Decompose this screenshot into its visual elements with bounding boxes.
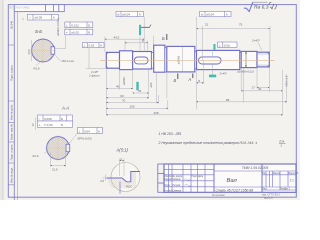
svg-text:⟂: ⟂ — [219, 43, 221, 47]
dia dim line inside s7 — [245, 51, 247, 67]
svg-text:6Р9(-0,03): 6Р9(-0,03) — [78, 137, 92, 141]
feature frame F7 — [38, 115, 73, 127]
stamp horizontals — [164, 170, 296, 187]
svg-text:Б: Б — [162, 36, 165, 41]
svg-text:0,5: 0,5 — [101, 179, 105, 183]
svg-text:А: А — [98, 129, 100, 133]
stamp left strip — [158, 164, 164, 192]
top-left corner stamp — [14, 5, 64, 12]
shaft section s7 — [241, 51, 257, 67]
svg-text:Б: Б — [174, 78, 177, 83]
dim 70 left / 85 right — [106, 102, 158, 104]
svg-text:Взам. инв.№: Взам. инв.№ — [10, 124, 14, 140]
svg-text:Подп. и дата: Подп. и дата — [10, 65, 14, 81]
dim 40 right — [241, 90, 282, 92]
svg-text:Масштаб: Масштаб — [288, 173, 299, 175]
svg-text:Масса: Масса — [273, 173, 281, 175]
stamp verticals left table — [169, 164, 206, 192]
leader left of А-А — [44, 151, 48, 154]
left strip dividers — [8, 45, 14, 185]
keyway slot s3 — [134, 57, 148, 64]
cut line x182 — [182, 47, 184, 72]
svg-text:0,008: 0,008 — [44, 117, 52, 121]
feature frame F3 top-left — [28, 14, 59, 20]
groove hatch — [107, 172, 137, 189]
svg-text:70: 70 — [122, 99, 126, 103]
svg-text:⌀22k6(-0,015): ⌀22k6(-0,015) — [56, 18, 60, 36]
svg-text:14,5: 14,5 — [27, 49, 31, 55]
teal datum mark T1 — [139, 25, 141, 35]
stamp outer — [164, 164, 296, 192]
svg-text:Струков: Струков — [173, 191, 182, 193]
svg-text:Дата: Дата — [198, 176, 204, 178]
teal mark T2 — [136, 82, 138, 91]
extension lines below shaft — [106, 50, 286, 115]
relief groove g4 — [240, 52, 241, 67]
svg-text:Б: Б — [88, 31, 90, 35]
section circle А-А — [45, 135, 71, 161]
svg-text:Иванов: Иванов — [173, 179, 182, 181]
dim 17 right — [257, 87, 269, 89]
shaft section s2 — [120, 51, 133, 70]
svg-text:◎: ◎ — [117, 13, 120, 17]
small dim mid — [133, 92, 149, 94]
svg-text:32: 32 — [138, 89, 142, 93]
dim 40 left — [106, 88, 132, 90]
svg-text:0,02: 0,02 — [89, 44, 95, 48]
teal mark T3 — [213, 44, 215, 50]
svg-text:Пров.: Пров. — [164, 185, 170, 187]
svg-text:Копировал: Копировал — [212, 193, 225, 197]
small bracket left of F7 — [35, 118, 37, 131]
svg-text:Петров: Петров — [173, 185, 181, 187]
section circle Б-Б — [31, 38, 56, 63]
F10 callout — [82, 43, 104, 48]
svg-text:40: 40 — [258, 87, 262, 91]
svg-text:ТММ 1.09.01.005: ТММ 1.09.01.005 — [8, 6, 30, 10]
svg-text:17: 17 — [252, 86, 256, 90]
shaft collar s4 — [154, 45, 165, 72]
Б-Б bottom dim — [36, 60, 43, 66]
svg-text:R1,6: R1,6 — [34, 67, 40, 71]
svg-text:○: ○ — [39, 117, 41, 121]
svg-text:Инв.№ дубл.: Инв.№ дубл. — [10, 104, 14, 120]
detail dims — [102, 159, 124, 181]
svg-text:⌀16k6(+0,01): ⌀16k6(+0,01) — [237, 70, 254, 74]
shaft section s5 — [167, 46, 195, 72]
svg-text:40: 40 — [116, 85, 120, 89]
svg-text:Б-Б: Б-Б — [35, 29, 42, 34]
svg-text:⌀18k6: ⌀18k6 — [122, 77, 126, 85]
svg-text:⟂: ⟂ — [83, 44, 85, 48]
sheet background — [0, 0, 300, 200]
svg-text:А: А — [188, 77, 192, 82]
svg-text:№ докум.: № докум. — [173, 175, 183, 178]
thread line s8 — [257, 53, 269, 55]
svg-text:⟂: ⟂ — [39, 123, 41, 127]
shaft section s8 — [257, 52, 269, 67]
svg-text:2×45°: 2×45° — [219, 72, 228, 76]
svg-text:ТММ 1.09.01.005: ТММ 1.09.01.005 — [242, 166, 269, 170]
svg-text:⌀0,02: ⌀0,02 — [71, 31, 79, 35]
svg-text:60: 60 — [120, 94, 124, 98]
svg-text:0,5⌀: 0,5⌀ — [224, 43, 230, 47]
svg-text:2 Неуказанные предельные откло: 2 Неуказанные предельные отклонения разм… — [158, 141, 258, 145]
svg-text:А: А — [53, 16, 55, 20]
keyway notch А-А — [66, 144, 70, 151]
svg-text:1 НВ 263...285: 1 НВ 263...285 — [159, 132, 182, 136]
extension line x153 — [152, 36, 154, 46]
dim 208 total — [106, 114, 282, 116]
stamp right section — [262, 171, 296, 190]
svg-text:⌀0,05: ⌀0,05 — [35, 16, 43, 20]
shaft section s1 — [106, 52, 119, 68]
svg-text:21,9: 21,9 — [52, 168, 58, 172]
dim 106 — [106, 107, 168, 109]
svg-text:А: А — [139, 13, 141, 17]
centerline — [101, 59, 275, 61]
svg-text:⌀0,04: ⌀0,04 — [206, 13, 214, 17]
relief groove g1 — [152, 53, 154, 69]
detail vertical drop — [119, 182, 121, 194]
shaft section s3 — [133, 52, 152, 70]
svg-text:85: 85 — [226, 98, 230, 102]
svg-text:Лит.: Лит. — [262, 173, 267, 175]
Б-Б left vertical dim — [31, 40, 33, 61]
feature frame F4 — [65, 22, 93, 28]
svg-text:38.340: 38.340 — [10, 20, 14, 29]
centerline overlay — [101, 59, 275, 61]
svg-text:⟂: ⟂ — [79, 129, 81, 133]
sheet left edge shadow — [0, 0, 3, 200]
shaft section s6 — [197, 50, 240, 69]
svg-text:А: А — [226, 13, 228, 17]
dim below А-А — [51, 153, 66, 168]
svg-text:Вал: Вал — [227, 178, 238, 184]
detail circle — [111, 163, 140, 192]
feature frame F2 above shaft right — [200, 11, 232, 16]
svg-text:R0,5: R0,5 — [126, 185, 132, 189]
top dim 44.5 — [105, 37, 144, 53]
svg-text:1:1: 1:1 — [290, 179, 295, 183]
svg-text:Б: Б — [88, 23, 90, 27]
dim 60 — [106, 97, 148, 99]
svg-text:Б: Б — [61, 117, 63, 121]
left chamfer note with shelf — [86, 67, 105, 69]
frame column line 2 — [17, 12, 19, 200]
svg-text:◎: ◎ — [201, 13, 204, 17]
teal mark T4 — [209, 75, 216, 78]
dim 8 right — [197, 82, 204, 84]
svg-text:А: А — [100, 44, 102, 48]
feature frame F9 — [78, 128, 103, 134]
leader line from F4 down to circle — [65, 22, 67, 48]
svg-text:Подп. и дата: Подп. и дата — [10, 144, 14, 160]
signatures in stamp — [174, 179, 192, 191]
leader from Б-Б notch — [54, 54, 61, 61]
svg-text:2×45°: 2×45° — [251, 39, 261, 43]
left strip rotated labels — [10, 20, 14, 183]
svg-text:Листов 1: Листов 1 — [280, 189, 290, 191]
svg-text:75: 75 — [239, 23, 243, 27]
border frame — [8, 5, 296, 198]
svg-text:А-А: А-А — [61, 106, 69, 111]
svg-text:21: 21 — [205, 23, 209, 27]
svg-text:⟂: ⟂ — [22, 17, 24, 21]
svg-text:Подп.: Подп. — [191, 176, 197, 178]
stamp left table texts — [164, 175, 204, 192]
svg-text:0,012: 0,012 — [71, 23, 79, 27]
svg-text:Т 0,06: Т 0,06 — [44, 123, 53, 127]
svg-text:R0,4 max: R0,4 max — [62, 59, 75, 63]
groove profile in detail — [107, 172, 141, 182]
chamfer s8 right — [267, 52, 269, 54]
top dim 75 — [197, 26, 271, 61]
svg-text:IT14: IT14 — [279, 140, 285, 144]
svg-text:○: ○ — [29, 16, 31, 20]
svg-text:М16×1,5: М16×1,5 — [284, 75, 288, 86]
keyway notch Б-Б — [51, 47, 55, 54]
feature frame F5 — [65, 29, 93, 35]
svg-text:⌀30k6: ⌀30k6 — [177, 55, 181, 64]
svg-text:Б: Б — [61, 123, 63, 127]
svg-text:R1,6: R1,6 — [33, 154, 39, 158]
frame column line 1 — [13, 5, 15, 200]
svg-text:208: 208 — [154, 111, 159, 115]
svg-text:44,5: 44,5 — [114, 35, 120, 39]
svg-text:⌀0,04: ⌀0,04 — [122, 13, 130, 17]
chamfer s1 left — [106, 52, 108, 54]
svg-text:⟂: ⟂ — [66, 23, 68, 27]
keyway slot s6 — [199, 57, 222, 64]
svg-text:0,04: 0,04 — [84, 129, 90, 133]
leader from circle to F9 — [69, 134, 78, 145]
relief groove g2 — [165, 48, 167, 72]
relief groove g3 — [195, 52, 197, 69]
feature frame F1 above shaft — [116, 11, 144, 16]
roughness symbol top right — [244, 2, 253, 12]
svg-text:ФЭТиП: ФЭТиП — [264, 196, 273, 200]
cut line through T3/T4 — [212, 50, 214, 57]
leader from F10 to chamfer note — [88, 48, 90, 69]
extension line from F2 down — [196, 17, 198, 50]
svg-text:106: 106 — [130, 105, 135, 109]
top dim 8 keyway — [125, 41, 148, 52]
cut line through T1 — [139, 35, 141, 51]
svg-text:2 фаски: 2 фаски — [88, 74, 100, 78]
extension line from F1 down — [143, 17, 145, 51]
svg-text:⌀36: ⌀36 — [149, 82, 153, 87]
svg-text:Инв.№ подл.: Инв.№ подл. — [10, 167, 14, 183]
svg-text:⌖: ⌖ — [66, 31, 68, 35]
svg-text:Ra 6,3: Ra 6,3 — [254, 4, 269, 10]
F6 callout above s6 — [218, 42, 238, 47]
svg-text:А(5:1): А(5:1) — [116, 147, 129, 152]
svg-text:Сталь 45 ГОСТ 1050-88: Сталь 45 ГОСТ 1050-88 — [216, 188, 254, 192]
stamp main verticals — [214, 164, 262, 192]
